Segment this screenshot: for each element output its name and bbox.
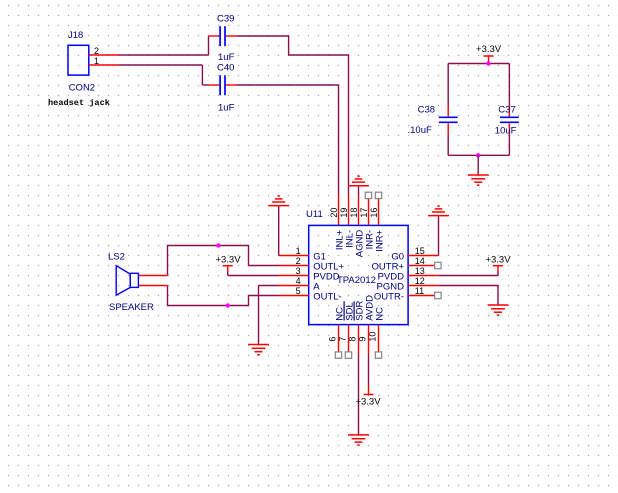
svg-text:3: 3	[296, 266, 301, 276]
svg-text:C38: C38	[418, 105, 435, 116]
svg-text:10uF: 10uF	[495, 126, 517, 137]
svg-text:5: 5	[296, 286, 301, 296]
svg-text:CON2: CON2	[69, 82, 95, 93]
svg-text:C40: C40	[217, 63, 234, 74]
svg-text:15: 15	[415, 246, 425, 256]
svg-text:19: 19	[339, 208, 349, 218]
svg-text:OUTL-: OUTL-	[313, 292, 342, 303]
svg-text:C37: C37	[498, 105, 515, 116]
svg-text:14: 14	[415, 256, 425, 266]
svg-text:J18: J18	[68, 30, 83, 41]
svg-text:1: 1	[296, 246, 301, 256]
svg-text:16: 16	[369, 208, 379, 218]
svg-text:1uF: 1uF	[218, 52, 235, 63]
svg-text:headset jack: headset jack	[48, 98, 110, 108]
svg-text:+3.3V: +3.3V	[485, 254, 511, 265]
svg-text:13: 13	[415, 266, 425, 276]
svg-text:C39: C39	[217, 14, 234, 25]
svg-text:NC: NC	[375, 307, 386, 321]
svg-text:20: 20	[329, 208, 339, 218]
svg-text:18: 18	[349, 208, 359, 218]
svg-text:OUTR-: OUTR-	[374, 292, 404, 303]
svg-text:6: 6	[327, 337, 337, 342]
svg-text:U11: U11	[306, 209, 323, 220]
svg-text:1uF: 1uF	[218, 103, 235, 114]
svg-text:11: 11	[415, 286, 424, 296]
svg-text:17: 17	[359, 208, 369, 218]
svg-text:INR+: INR+	[375, 229, 386, 251]
svg-text:12: 12	[415, 276, 425, 286]
svg-text:.10uF: .10uF	[408, 125, 432, 136]
svg-text:TPA2012: TPA2012	[337, 275, 376, 286]
svg-text:2: 2	[296, 256, 301, 266]
svg-text:+3.3V: +3.3V	[476, 44, 502, 55]
svg-text:4: 4	[296, 276, 301, 286]
svg-text:+3.3V: +3.3V	[355, 396, 381, 407]
svg-text:LS2: LS2	[108, 252, 125, 263]
svg-text:+3.3V: +3.3V	[215, 254, 241, 265]
svg-text:SPEAKER: SPEAKER	[109, 302, 154, 313]
